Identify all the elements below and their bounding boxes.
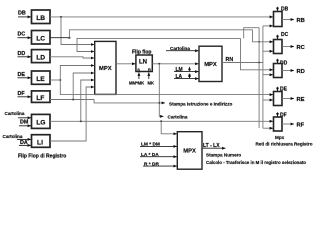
svg-text:Cartolina: Cartolina [5, 111, 25, 116]
wire LI output up to MPX pin 7 [50, 87, 94, 141]
wire bus stub to RC lower input [263, 50, 273, 52]
wire R*DR to MPX3 [143, 165, 177, 167]
wire LA to MPX2 [174, 78, 199, 80]
wire RD output [282, 70, 294, 72]
wire bus stub to RB lower input [263, 25, 273, 27]
wire LM to MPX2 [174, 71, 199, 73]
svg-text:RE: RE [297, 97, 305, 103]
node Cartolina (input to LI) [3, 134, 23, 139]
register RB [274, 12, 283, 27]
node junction LB row [60, 16, 62, 18]
wire DM to LG [19, 125, 31, 127]
wire DE strobe into RE [277, 87, 279, 91]
svg-text:DC: DC [18, 32, 26, 38]
wire DB strobe into RB [277, 7, 279, 11]
wire LF output row [50, 99, 94, 101]
node junction LG row pin6 [80, 120, 82, 122]
node LM*DM label [141, 142, 160, 148]
caption Flip flop [132, 49, 151, 55]
wire MPX output to LN [116, 63, 135, 65]
register RE [274, 92, 283, 106]
svg-text:LN: LN [139, 60, 147, 66]
svg-text:Cartolina: Cartolina [3, 134, 23, 139]
node Cartolina (input to LG) [5, 111, 25, 116]
node LA*DA label [141, 152, 159, 158]
flip-flop LI [32, 135, 51, 148]
svg-text:DC: DC [281, 32, 289, 38]
flip-flop LC [32, 31, 51, 45]
wire DF strobe into RF [277, 112, 279, 116]
node MK label [148, 81, 155, 86]
node junction LF output [72, 99, 74, 101]
svg-text:R: R [148, 67, 151, 72]
wire Cartolina to MPX2 [166, 50, 199, 52]
wire LG output row to RF [50, 120, 273, 122]
svg-text:Cartolina: Cartolina [168, 114, 188, 119]
svg-text:Stampa Numero: Stampa Numero [206, 152, 241, 157]
wire LF branch up to MPX pin 5 [73, 73, 94, 100]
svg-text:RC: RC [297, 45, 306, 51]
node RN (net label) [226, 57, 234, 63]
wire LF branch to Stampa arrow [94, 100, 165, 103]
node RF (output label) [297, 123, 305, 129]
svg-text:RB: RB [297, 18, 305, 24]
wire reset input MK [148, 73, 150, 80]
wire LM*DM to MPX3 [140, 145, 177, 147]
wire row to MPX pin 2 [77, 38, 241, 51]
wire drop to RC upper input [253, 30, 274, 42]
wire DD strobe into RD [277, 59, 279, 63]
wire drop to RD upper input [241, 38, 274, 69]
node junction tap-Stampa crossing [158, 102, 160, 104]
node junction RN bus [258, 62, 260, 64]
wire LC output [50, 37, 69, 39]
node DB (register control) [281, 7, 289, 13]
wire LE branch up to MPX pin 4 [60, 66, 94, 81]
node LA label [176, 74, 190, 80]
caption Reti di richiusura Registro [256, 142, 313, 147]
register RF [274, 117, 283, 131]
svg-text:DE: DE [18, 72, 26, 78]
node RD (output label) [297, 69, 305, 75]
node DM (input label) [20, 120, 29, 126]
node RE (output label) [297, 97, 305, 103]
flip-flop LG [32, 114, 51, 128]
wire LD output to MPX pin 3 [50, 57, 94, 58]
node DF (register control) [280, 112, 287, 118]
wire set input MM*MK [138, 73, 140, 80]
svg-text:RD: RD [297, 69, 305, 75]
wire LA*DA to MPX3 [140, 156, 177, 158]
multiplexer U1 (MPX) [95, 41, 116, 94]
node DE (register control) [280, 87, 288, 93]
node DC (input label) [18, 32, 26, 38]
svg-text:MPX: MPX [183, 148, 196, 154]
svg-text:LF: LF [36, 95, 44, 102]
wire Cartolina to LG [18, 117, 31, 119]
svg-text:Stampa Istruzione e Indirizzo: Stampa Istruzione e Indirizzo [169, 101, 232, 106]
caption Stampa Numero [206, 152, 241, 157]
wire RF output [282, 123, 294, 125]
wire RC output [282, 46, 294, 48]
svg-text:S: S [137, 67, 140, 72]
wire RN output to bus [222, 62, 263, 64]
svg-text:DA: DA [20, 140, 28, 146]
multiplexer U2 (MPX) [199, 46, 222, 81]
svg-text:RF: RF [297, 123, 305, 129]
svg-text:LC: LC [36, 35, 45, 42]
wire DC strobe into RC [277, 35, 279, 39]
svg-text:MM*MK: MM*MK [129, 81, 144, 86]
wire LB drop to MPX pin 1 [61, 17, 94, 45]
node RC (output label) [297, 45, 306, 51]
svg-text:Mpx: Mpx [275, 135, 285, 140]
node LT-LX (output label) [203, 143, 220, 149]
flip-flop LB [32, 10, 51, 24]
wire LG branch down to MPX3 top input [161, 121, 177, 134]
svg-text:DB: DB [18, 11, 26, 17]
caption Flip Flop di Registro [18, 154, 66, 160]
node MM*MK label [129, 81, 144, 86]
svg-text:MK: MK [148, 81, 155, 86]
wire LE branch down to RE upper input [60, 80, 273, 95]
node Cartolina (bottom arrow) [168, 114, 188, 119]
wire DB to LB [18, 16, 31, 18]
svg-text:MPX: MPX [204, 62, 217, 68]
wire bus stub to RF lower input [263, 127, 273, 129]
svg-text:MPX: MPX [99, 66, 112, 72]
node DD (register control) [280, 60, 288, 66]
wire RE output [282, 98, 294, 100]
node DF (input label) [18, 91, 26, 97]
flip-flop LE [32, 71, 51, 84]
svg-text:LB: LB [36, 15, 45, 22]
register RD [274, 64, 283, 78]
node LM label [176, 67, 190, 73]
wire LT-LX output [202, 147, 226, 149]
wire LN output to MPX2 [152, 63, 198, 65]
node Stampa Istruzione e Indirizzo [169, 101, 232, 106]
node junction LG row MPX3 [160, 120, 162, 122]
register RC [274, 40, 283, 54]
wire DA to LI [19, 144, 31, 146]
svg-text:DD: DD [18, 51, 26, 57]
svg-text:Calcolo - Trasferisce in M il: Calcolo - Trasferisce in M il registro s… [206, 160, 306, 165]
node junction LN output tap [158, 63, 160, 65]
wire DF to LF [18, 96, 32, 98]
wire bus stub to RD lower input [263, 74, 273, 76]
node Cartolina (input to MPX2) [170, 46, 190, 51]
caption Calcolo - Trasferisce in M il registro selezionato [206, 160, 306, 165]
wire Cartolina to LI [17, 138, 31, 140]
wire LG branch up to MPX pin 6 [81, 80, 94, 121]
node DB (input label) [18, 11, 26, 17]
node DD (input label) [18, 51, 26, 57]
multiplexer U3 (MPX) [177, 132, 202, 170]
svg-text:LI: LI [37, 139, 43, 146]
node RB (output label) [297, 18, 305, 24]
node DE (input label) [18, 72, 26, 78]
wire DE to LE [18, 77, 32, 79]
wire DD to LD [18, 56, 32, 58]
node DA (input label) [20, 140, 28, 146]
svg-text:LG: LG [36, 120, 45, 127]
wire bus stub to RE lower input [263, 99, 273, 101]
svg-text:LD: LD [36, 54, 45, 61]
node junction LE output [59, 79, 61, 81]
svg-text:Flip Flop di Registro: Flip Flop di Registro [18, 154, 66, 160]
wire LB output row to RB [50, 16, 273, 18]
node R*DR label [144, 161, 159, 167]
flip-flop LD [32, 50, 51, 63]
wire RB output [282, 19, 294, 21]
wire feedback bus A [258, 28, 260, 128]
wire DC to LC [18, 37, 32, 39]
svg-text:Reti di richiusura Registro: Reti di richiusura Registro [256, 142, 313, 147]
svg-text:LE: LE [36, 76, 45, 83]
wire LE output [50, 79, 60, 81]
svg-text:DM: DM [20, 120, 29, 126]
wire LN tap down to Cartolina arrow [159, 64, 163, 117]
flip-flop LN [136, 55, 152, 72]
svg-text:DF: DF [18, 91, 26, 97]
node DC (register control) [281, 32, 289, 38]
flip-flop LF [32, 91, 51, 103]
caption Mpx [275, 135, 285, 140]
